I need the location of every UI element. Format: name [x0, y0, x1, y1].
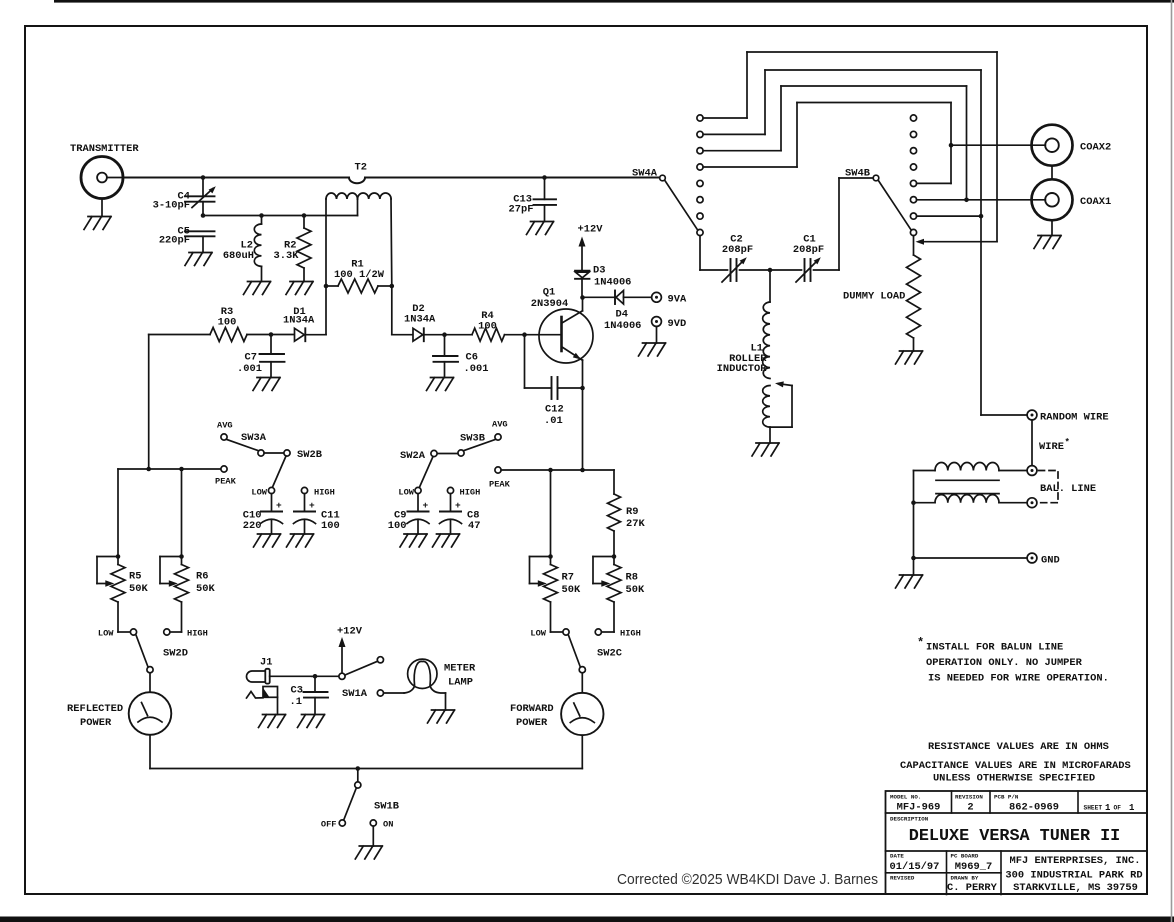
svg-text:.1: .1: [290, 696, 302, 708]
node junction C3 tap: [313, 674, 318, 679]
switch SW4B contact 2: [910, 131, 916, 137]
ground under 9VD: [639, 343, 666, 356]
svg-text:MODEL NO.: MODEL NO.: [890, 793, 921, 800]
svg-text:50K: 50K: [196, 583, 215, 595]
svg-text:OFF: OFF: [321, 820, 337, 830]
wire bus2: [765, 69, 981, 71]
svg-text:.001: .001: [237, 363, 262, 375]
svg-text:680uH: 680uH: [223, 250, 254, 262]
wire ON contact to ground: [372, 826, 374, 846]
switch SW4B contact 5: [910, 180, 916, 186]
wire bus1: [747, 51, 997, 53]
capacitor C8 47 electrolytic: [447, 487, 453, 493]
ground under J1: [259, 715, 286, 728]
switch SW4B wiper arm: [878, 180, 911, 230]
svg-text:RESISTANCE VALUES ARE IN OHMS: RESISTANCE VALUES ARE IN OHMS: [928, 741, 1109, 753]
svg-text:R9: R9: [626, 506, 638, 518]
svg-text:HIGH: HIGH: [460, 488, 481, 498]
svg-text:SW1B: SW1B: [374, 801, 400, 813]
switch SW4B contact 4: [910, 164, 916, 170]
svg-text:ON: ON: [383, 820, 393, 830]
potentiometer R6 50K: [179, 554, 184, 559]
switch SW1B on/off: [357, 769, 359, 782]
svg-text:C3: C3: [291, 685, 303, 697]
svg-text:COAX2: COAX2: [1080, 142, 1111, 154]
svg-text:HIGH: HIGH: [620, 629, 641, 639]
ground under balun: [896, 575, 923, 588]
svg-text:+: +: [455, 500, 461, 511]
svg-text:METER: METER: [444, 663, 476, 675]
svg-text:PEAK: PEAK: [489, 480, 511, 490]
balun transformer bottom winding: [914, 502, 936, 504]
wire T2 right end down: [390, 199, 393, 286]
ground under L1: [752, 443, 779, 456]
connector J-TRANSMITTER coax jack: [81, 157, 123, 199]
node junction C13 tap: [542, 175, 547, 180]
svg-text:T2: T2: [355, 162, 367, 174]
wire T2 center tap: [357, 199, 359, 216]
resistor R3 100: [210, 328, 247, 342]
capacitor C9 100 electrolytic: [415, 487, 421, 493]
wire bus4: [797, 102, 951, 104]
switch SW2A low/high: [431, 450, 437, 456]
transformer T2 secondary winding: [326, 193, 358, 199]
svg-text:208pF: 208pF: [722, 244, 753, 256]
svg-text:DELUXE VERSA TUNER II: DELUXE VERSA TUNER II: [909, 827, 1120, 846]
svg-text:27pF: 27pF: [509, 203, 534, 215]
switch SW4A contact 7: [697, 213, 703, 219]
wire bus2 vertical drop to random wire: [980, 70, 982, 415]
svg-text:PC BOARD: PC BOARD: [951, 853, 979, 860]
capacitor C10 220 electrolytic: [268, 487, 274, 493]
ground under L2: [244, 282, 271, 295]
svg-text:220pF: 220pF: [159, 234, 190, 246]
svg-text:+: +: [309, 500, 315, 511]
ground under C3: [298, 715, 325, 728]
svg-text:SW1A: SW1A: [342, 688, 368, 700]
wire GND line: [914, 557, 1028, 559]
svg-text:MFJ-969: MFJ-969: [897, 802, 941, 814]
svg-text:Q1: Q1: [543, 287, 555, 299]
node junction C12 left: [522, 332, 527, 337]
svg-text:LAMP: LAMP: [448, 677, 473, 689]
node junction R6 feed: [179, 467, 184, 472]
resistor R9 27K: [613, 470, 615, 494]
svg-text:D4: D4: [616, 309, 628, 321]
svg-text:SW2B: SW2B: [297, 449, 323, 461]
svg-text:TRANSMITTER: TRANSMITTER: [70, 143, 139, 155]
svg-text:+: +: [423, 500, 429, 511]
wire reflected peak line: [118, 468, 221, 470]
node junction bus4/COAX2 line: [949, 143, 954, 148]
svg-text:.001: .001: [464, 363, 489, 375]
svg-text:.01: .01: [544, 415, 563, 427]
ground under SW1B: [355, 846, 382, 859]
inductor L2 680uH: [261, 216, 263, 225]
wire SW4A contact1 to bus1: [703, 117, 747, 119]
switch SW4A contact 4: [697, 164, 703, 170]
wire T2 left end down: [325, 199, 327, 335]
svg-text:WIRE: WIRE: [1039, 441, 1064, 453]
svg-text:DUMMY LOAD: DUMMY LOAD: [843, 291, 905, 303]
lamp METER LAMP: [408, 659, 437, 688]
svg-text:+12V: +12V: [337, 626, 363, 638]
svg-text:C12: C12: [545, 404, 564, 416]
connector COAX1: [1032, 179, 1073, 220]
svg-text:C6: C6: [466, 352, 478, 364]
svg-text:AVG: AVG: [217, 421, 233, 431]
switch SW2B low/high: [284, 450, 290, 456]
node junction bus2/SW4B contact7: [979, 214, 984, 219]
connector COAX2: [1032, 125, 1073, 166]
wire transmitter ground stem: [101, 199, 103, 217]
svg-text:INDUCTOR: INDUCTOR: [717, 363, 768, 375]
wire R6 feed down: [181, 469, 183, 557]
svg-text:50K: 50K: [129, 583, 148, 595]
switch SW4A contact 5: [697, 180, 703, 186]
wire L1 bottom to ground: [769, 427, 771, 443]
node junction C4 tap: [201, 175, 206, 180]
wire balun left leg: [913, 471, 915, 576]
svg-text:47: 47: [468, 520, 480, 532]
wire bottom meter rail: [150, 768, 582, 770]
inductor L1 roller inductor: [769, 270, 771, 302]
wire RANDOM WIRE to WIRE terminal: [1031, 420, 1033, 466]
wire COAX1 shell to ground: [1051, 220, 1053, 235]
balun core bars: [936, 479, 999, 481]
terminal PEAK (forward): [495, 467, 501, 473]
bottom scan bar: [0, 917, 1174, 922]
node junction L1 tap: [768, 268, 773, 273]
ground under C10: [254, 534, 281, 547]
svg-text:DATE: DATE: [890, 853, 904, 860]
capacitor C6 .001: [444, 335, 446, 356]
svg-text:100: 100: [321, 520, 340, 532]
terminal RANDOM WIRE: [1027, 410, 1037, 420]
svg-text:208pF: 208pF: [793, 244, 824, 256]
switch SW4B contact 6: [910, 197, 916, 203]
capacitor C4 variable 3-10pF: [202, 178, 204, 197]
svg-text:1N4006: 1N4006: [604, 320, 641, 332]
wire peak line left corner down to R5: [117, 469, 119, 557]
svg-text:+: +: [276, 500, 282, 511]
resistor DUMMY LOAD: [913, 236, 915, 255]
node junction R2 top: [302, 213, 307, 218]
svg-text:220: 220: [243, 520, 262, 532]
switch SW4A contact 6: [697, 197, 703, 203]
svg-text:INSTALL FOR BALUN LINE: INSTALL FOR BALUN LINE: [926, 642, 1063, 654]
svg-text:R8: R8: [626, 572, 638, 584]
svg-text:100: 100: [218, 317, 237, 329]
svg-text:STARKVILLE, MS 39759: STARKVILLE, MS 39759: [1013, 882, 1138, 894]
node junction C6: [442, 332, 447, 337]
svg-text:POWER: POWER: [516, 717, 548, 729]
wire coax shells link: [1051, 166, 1053, 180]
capacitor C12 .01: [524, 335, 526, 388]
svg-text:2N3904: 2N3904: [531, 298, 568, 310]
potentiometer R8 50K: [612, 554, 617, 559]
capacitor C11 100 electrolytic: [301, 487, 307, 493]
svg-text:REFLECTED: REFLECTED: [67, 703, 123, 715]
svg-text:REVISED: REVISED: [890, 875, 915, 882]
wire SW4A common down to C2 line: [699, 236, 701, 270]
svg-text:LOW: LOW: [530, 629, 546, 639]
svg-text:9VD: 9VD: [668, 318, 687, 330]
capacitor C5 220pF: [185, 230, 215, 232]
wire main antenna line with T2 pass-through hump: [124, 177, 349, 179]
switch SW4B contact 3: [910, 148, 916, 154]
meter REFLECTED POWER: [149, 673, 151, 692]
svg-text:1N34A: 1N34A: [404, 314, 436, 326]
svg-text:LOW: LOW: [251, 488, 267, 498]
svg-text:+12V: +12V: [578, 224, 604, 236]
svg-text:COAX1: COAX1: [1080, 196, 1111, 208]
svg-text:3.3K: 3.3K: [274, 250, 300, 262]
terminal BAL LINE bottom: [1027, 498, 1037, 508]
wire SW4B contact5 to bus4 drop: [917, 182, 951, 184]
ground under C8: [433, 534, 460, 547]
wire bus4 vertical drop to COAX2/SW4B contact5: [950, 103, 952, 184]
svg-text:3-10pF: 3-10pF: [153, 200, 190, 212]
svg-text:HIGH: HIGH: [314, 488, 335, 498]
svg-text:300 INDUSTRIAL PARK RD: 300 INDUSTRIAL PARK RD: [1005, 870, 1142, 882]
ground under R2: [286, 282, 313, 295]
capacitor C3 .1: [314, 676, 316, 692]
switch SW4A contact 1: [697, 115, 703, 121]
diode D4 1N4006: [583, 296, 616, 298]
svg-text:LOW: LOW: [98, 629, 114, 639]
svg-text:FORWARD: FORWARD: [510, 703, 554, 715]
svg-text:SW3A: SW3A: [241, 432, 267, 444]
capacitor C13 27pF: [544, 178, 546, 200]
potentiometer R5 50K: [116, 554, 121, 559]
wire SW4A contact3 to bus3: [703, 150, 781, 152]
wire SW4A contact2 to bus2: [703, 133, 765, 135]
ground under C6: [427, 378, 454, 391]
svg-text:OF: OF: [1114, 805, 1122, 812]
wire bus2 drop corner to RANDOM WIRE: [981, 414, 1027, 416]
ground under dummy load: [896, 351, 923, 364]
wire R1 right leg to D2: [392, 334, 413, 336]
wire SW4B common feed from C1 line: [839, 177, 873, 179]
ground under C7: [253, 378, 280, 391]
wire bus3 vertical drop to COAX1 line: [966, 86, 968, 200]
diode D3 1N4006: [575, 270, 590, 272]
svg-text:1N4006: 1N4006: [594, 277, 631, 289]
svg-text:PEAK: PEAK: [215, 477, 237, 487]
svg-text:DRAWN BY: DRAWN BY: [951, 875, 979, 882]
wire forward peak line: [501, 469, 614, 471]
wire bus3: [781, 85, 967, 87]
svg-text:J1: J1: [260, 657, 272, 669]
connector J1 switch contact: [247, 692, 264, 699]
node junction emitter/C12: [580, 386, 585, 391]
svg-text:9VA: 9VA: [668, 294, 687, 306]
svg-text:1: 1: [1129, 803, 1135, 813]
svg-text:M969_7: M969_7: [955, 861, 992, 873]
top scan bar: [54, 0, 1174, 3]
resistor R4 100: [472, 328, 505, 341]
svg-text:SW2D: SW2D: [163, 648, 188, 660]
wire R3 to D1: [247, 334, 295, 336]
wire SW4B contact7 to bus2 drop: [917, 215, 981, 217]
svg-text:MFJ ENTERPRISES, INC.: MFJ ENTERPRISES, INC.: [1010, 855, 1141, 867]
wire left sense line: [149, 334, 210, 336]
svg-text:PCB P/N: PCB P/N: [994, 793, 1019, 800]
switch SW4A contact 2: [697, 131, 703, 137]
wire R4 to Q1 base: [505, 334, 561, 336]
ground under C11: [287, 534, 314, 547]
wire C12 node down to forward peak line: [582, 388, 584, 470]
svg-text:SW2C: SW2C: [597, 648, 622, 660]
svg-text:R7: R7: [562, 572, 574, 584]
svg-text:DESCRIPTION: DESCRIPTION: [890, 816, 929, 823]
resistor R2 3.3K: [303, 216, 305, 229]
svg-text:*: *: [1065, 438, 1070, 448]
diode D2 1N34A: [413, 328, 423, 341]
terminal PEAK (reflected): [221, 466, 227, 472]
capacitor C7 .001: [270, 335, 272, 355]
wire 9VD to ground: [656, 326, 658, 343]
svg-text:GND: GND: [1041, 554, 1060, 566]
svg-text:SW2A: SW2A: [400, 450, 426, 462]
svg-text:RANDOM WIRE: RANDOM WIRE: [1040, 412, 1109, 424]
wire T2 center-tap to C4/C5 node: [203, 215, 358, 217]
svg-text:C. PERRY: C. PERRY: [947, 882, 998, 894]
svg-text:2: 2: [967, 802, 973, 814]
node junction L2 top: [259, 213, 264, 218]
switch SW4B contact 7: [910, 213, 916, 219]
svg-text:SW4A: SW4A: [632, 168, 658, 180]
switch SW4A wiper arm: [665, 180, 698, 230]
switch SW4B contact 8: [910, 229, 916, 235]
ground under C9: [400, 534, 427, 547]
svg-text:SW3B: SW3B: [460, 433, 486, 445]
svg-text:01/15/97: 01/15/97: [890, 861, 940, 873]
ground under C5: [185, 253, 212, 266]
wire SW4B contact6 to COAX1: [917, 199, 1046, 201]
jumper bracket dashed (balun line): [1039, 471, 1059, 503]
svg-text:1N34A: 1N34A: [283, 315, 315, 327]
svg-text:50K: 50K: [562, 584, 581, 596]
wire L1 wiper bracket: [770, 426, 792, 428]
svg-text:C7: C7: [245, 352, 257, 364]
right scan line: [1171, 0, 1173, 922]
svg-text:50K: 50K: [626, 584, 645, 596]
terminal 9VA: [652, 292, 662, 302]
svg-text:OPERATION ONLY. NO JUMPER: OPERATION ONLY. NO JUMPER: [926, 657, 1083, 669]
svg-text:UNLESS OTHERWISE SPECIFIED: UNLESS OTHERWISE SPECIFIED: [933, 773, 1095, 785]
ground under transmitter: [84, 217, 111, 230]
transistor Q1 2N3904: [539, 309, 593, 363]
svg-text:27K: 27K: [626, 518, 645, 530]
terminal WIRE / balun top: [1027, 466, 1037, 476]
svg-text:CAPACITANCE VALUES ARE IN MICR: CAPACITANCE VALUES ARE IN MICROFARADS: [900, 760, 1131, 772]
svg-text:*: *: [917, 636, 924, 650]
capacitor C2 208pF variable: [730, 259, 732, 281]
svg-text:POWER: POWER: [80, 717, 112, 729]
svg-text:Corrected ©2025 WB4KDI Dave J: Corrected ©2025 WB4KDI Dave J. Barnes: [617, 871, 878, 888]
svg-text:BAL. LINE: BAL. LINE: [1040, 483, 1096, 495]
svg-text:SHEET: SHEET: [1084, 805, 1103, 812]
svg-text:R6: R6: [196, 571, 208, 583]
svg-text:AVG: AVG: [492, 420, 508, 430]
meter FORWARD POWER: [581, 673, 583, 693]
svg-text:IS NEEDED FOR WIRE OPERATION.: IS NEEDED FOR WIRE OPERATION.: [928, 673, 1109, 685]
switch SW2C: [568, 635, 580, 667]
potentiometer R7 50K: [550, 470, 552, 557]
capacitor C1 208pF variable: [804, 259, 806, 281]
svg-text:LOW: LOW: [398, 488, 414, 498]
switch SW1A: [339, 673, 345, 679]
switch SW2D: [136, 635, 148, 667]
switch SW4A contact 3: [697, 148, 703, 154]
svg-text:HIGH: HIGH: [187, 629, 208, 639]
terminal 9VD: [652, 317, 662, 327]
switch SW4B contact 1: [910, 115, 916, 121]
svg-text:100: 100: [478, 321, 497, 333]
svg-text:REVISION: REVISION: [955, 793, 983, 800]
terminal GND: [1027, 553, 1037, 563]
svg-text:100: 100: [388, 520, 407, 532]
balun transformer top winding: [914, 470, 936, 472]
switch SW4A contact 8: [697, 229, 703, 235]
ground under lamp: [428, 710, 455, 723]
ground under COAX1: [1034, 236, 1061, 249]
svg-text:1: 1: [1105, 803, 1111, 813]
svg-text:862-0969: 862-0969: [1009, 802, 1059, 814]
node junction C7: [269, 332, 274, 337]
node junction collector/D3/D4: [580, 295, 585, 300]
svg-text:D3: D3: [593, 265, 605, 277]
title block frame: [886, 791, 1148, 894]
svg-text:R5: R5: [129, 571, 141, 583]
wire tuning line SW4A to SW4B: [700, 269, 728, 271]
wire bus1 vertical drop to dummy load: [996, 52, 998, 242]
wire SW4A contact4 to bus4: [703, 166, 797, 168]
wire COAX2 feed: [951, 144, 1045, 146]
diode D1 1N34A: [295, 328, 305, 341]
ground under C13: [527, 222, 554, 235]
wire R3 line down to reflected peak line: [148, 335, 150, 470]
